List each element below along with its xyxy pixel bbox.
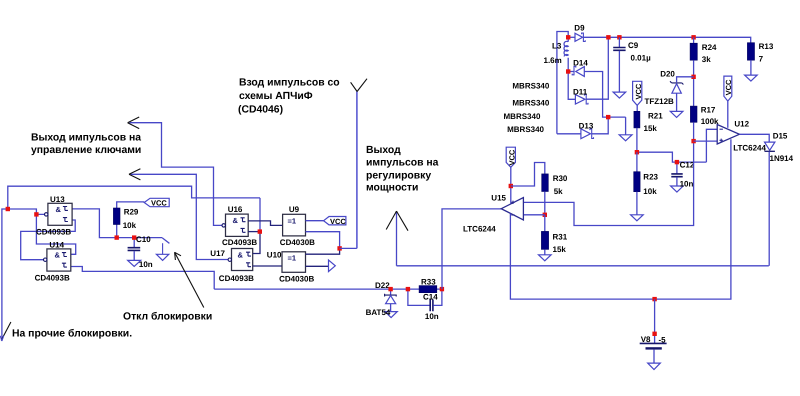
diode D13 (points right) (581, 129, 591, 139)
wire: U15 output column (442, 209, 501, 289)
resistor R30 (542, 174, 549, 192)
wire: R29 bottom stub (116, 225, 118, 238)
capacitor C12 (676, 162, 678, 173)
wire: VCC node to R30 top (511, 163, 545, 187)
XOR gate U10 (282, 252, 306, 272)
ground under C9 (613, 92, 626, 98)
svg-text:L3: L3 (552, 41, 562, 50)
junction C9 rail (617, 35, 621, 39)
svg-text:R31: R31 (553, 233, 568, 242)
junction D11 rail (606, 35, 610, 39)
svg-text:D15: D15 (773, 132, 788, 141)
svg-text:C10: C10 (136, 235, 151, 244)
battery V8 (640, 342, 667, 344)
ground at switch (162, 243, 164, 254)
wire: D14 cathode stub (568, 71, 574, 73)
junction U12 +in (691, 139, 695, 143)
wire: C12 node down to U15 +in route (524, 162, 694, 225)
arrowhead up (386, 211, 408, 231)
svg-text:U12: U12 (734, 119, 749, 128)
wire: U12 V- down to -5 rail (655, 139, 731, 299)
diode D9 (575, 33, 583, 41)
wire: R17 bottom column to C12 node (693, 122, 695, 162)
svg-text:R33: R33 (421, 277, 436, 286)
svg-text:U17: U17 (210, 249, 225, 258)
diode D11 (points right) (575, 95, 585, 104)
svg-text:VCC: VCC (507, 149, 516, 165)
svg-text:1.6m: 1.6m (544, 56, 562, 65)
wire: +in tap (694, 140, 717, 142)
junction antenna node (337, 246, 341, 250)
wire: U15 V- down to -5 rail (510, 214, 654, 300)
resistor R21 (634, 111, 640, 128)
svg-text:10n: 10n (139, 260, 153, 269)
wire: U10 upper out to antenna node (306, 248, 340, 254)
svg-text:мощности: мощности (366, 183, 418, 194)
wire: left output down to other interlocks (2, 209, 8, 341)
wire: rail to battery (654, 299, 656, 343)
wire: L3 node down to D11 anode (568, 72, 575, 100)
diode D14 (points left) (576, 67, 585, 77)
svg-text:V8: V8 (641, 335, 651, 344)
wire: U13 out to U14 input (P2) (36, 214, 75, 254)
svg-text:-5: -5 (659, 335, 667, 344)
svg-text:Выход импульсов на: Выход импульсов на (31, 133, 141, 144)
wire: R30 bottom to -in node (544, 192, 546, 215)
svg-text:VCC: VCC (330, 217, 346, 226)
VCC flag F4 (U12 supply) (724, 76, 732, 101)
wire: U16 row2 to node dot (248, 231, 260, 233)
svg-text:&: & (55, 251, 61, 260)
wire: node A net (U13 output to U16/U17 select) (8, 186, 260, 231)
resistor R13 (747, 43, 754, 61)
svg-text:VCC: VCC (151, 199, 167, 208)
wire: node to C12 node (637, 152, 707, 162)
svg-text:D22: D22 (375, 281, 390, 290)
wire: battery to ground (653, 350, 655, 363)
switch blade (162, 238, 169, 244)
svg-text:R17: R17 (701, 106, 716, 115)
svg-text:R30: R30 (553, 174, 568, 183)
svg-text:VCC: VCC (634, 83, 643, 99)
VCC flag F5 (U15 supply) (506, 147, 515, 167)
svg-text:U15: U15 (491, 193, 506, 202)
wire: dot1 to U13 output bubble (8, 209, 45, 214)
resistor R17 (690, 106, 697, 122)
capacitor C14 branch (408, 289, 430, 305)
wire: arrow1 to U16 bubble (129, 123, 222, 226)
wire: antenna node to antenna mast (340, 247, 357, 249)
ground under R31 (539, 255, 552, 261)
junction R29 bottom (115, 235, 119, 239)
ground under V8 (648, 363, 661, 369)
wire: U13 row2 feedback to U14 bubble (21, 220, 75, 260)
svg-text:D13: D13 (579, 121, 594, 130)
NAND gate U14 (44, 249, 71, 271)
svg-text:&: & (56, 205, 62, 214)
inductor L3 (567, 37, 569, 71)
svg-text:CD4093B: CD4093B (222, 238, 257, 247)
svg-text:U10: U10 (267, 251, 282, 260)
svg-text:MBRS340: MBRS340 (504, 112, 541, 121)
open arrow symbol (329, 260, 336, 272)
wire: VCC to U12 V+ (727, 101, 729, 128)
ground under C12 (671, 186, 684, 192)
svg-text:R23: R23 (643, 172, 658, 181)
svg-text:D11: D11 (573, 88, 588, 97)
antenna Y arms (351, 79, 367, 92)
antenna mast (356, 92, 358, 249)
op-amp U12 (717, 125, 739, 145)
ground under D20 (670, 111, 683, 117)
wire: VCC to R21 (636, 105, 638, 111)
wire: top supply rail (584, 37, 751, 42)
capacitor C10 (133, 238, 135, 247)
svg-text:&: & (233, 216, 239, 225)
VCC flag F3 (above R21) (633, 81, 642, 105)
svg-text:схемы АПЧиФ: схемы АПЧиФ (239, 91, 313, 102)
wire: -in loop (706, 129, 717, 162)
wire: node to R31 (544, 215, 546, 232)
resistor R29 (113, 208, 120, 225)
svg-text:C9: C9 (628, 41, 639, 50)
svg-text:&: & (238, 251, 244, 260)
svg-text:На прочие блокировки.: На прочие блокировки. (12, 329, 132, 340)
slash + arrow on left output (1, 322, 11, 340)
svg-text:Откл блокировки: Откл блокировки (123, 312, 212, 323)
op-amp U15 (mirrored) (501, 198, 523, 220)
junction L3 top (566, 35, 570, 39)
wire: up-arrow stem + long feedback rail (396, 211, 398, 266)
NAND gate U16 (222, 214, 248, 236)
arrowhead 2 (129, 169, 140, 180)
svg-text:15k: 15k (553, 245, 567, 254)
ground under C10 (128, 260, 141, 266)
svg-text:D20: D20 (660, 69, 675, 78)
svg-text:CD4030B: CD4030B (279, 275, 314, 284)
annotation arrow to switch (175, 252, 204, 307)
wire: arrow2 to U17 bubble (131, 174, 229, 259)
ground under R13 (745, 75, 758, 81)
svg-text:U13: U13 (50, 195, 65, 204)
svg-text:Выход: Выход (366, 145, 401, 156)
diode D15 (1N914, points down) (765, 142, 775, 150)
wire: rail y=289 (214, 288, 442, 290)
svg-text:CD4093B: CD4093B (35, 274, 70, 283)
wire: -in to node (524, 214, 545, 216)
svg-text:R21: R21 (648, 112, 663, 121)
junction U15 VCC (509, 184, 513, 188)
svg-text:5k: 5k (554, 187, 563, 196)
svg-text:MBRS340: MBRS340 (512, 82, 549, 91)
wire: node to D20 (677, 77, 694, 83)
junction R21/R23 (635, 150, 639, 154)
svg-text:U16: U16 (228, 205, 243, 214)
wire: R21 bottom to node (636, 128, 638, 152)
svg-text:U9: U9 (289, 205, 300, 214)
wire: D13 anode from return vertical (557, 133, 581, 135)
svg-text:10n: 10n (680, 179, 694, 188)
junction R24 rail (691, 35, 695, 39)
svg-text:D14: D14 (573, 58, 588, 67)
wire: U16 row1 to U9 input (248, 221, 282, 226)
resistor R31 (541, 231, 548, 249)
svg-text:10n: 10n (425, 312, 439, 321)
svg-text:VCC: VCC (724, 79, 733, 95)
svg-text:регулировку: регулировку (366, 170, 431, 181)
wire: D14 anode to node (584, 72, 625, 118)
svg-text:CD4030B: CD4030B (280, 238, 315, 247)
svg-text:LTC6244: LTC6244 (733, 143, 766, 152)
VCC flag F1 (144, 198, 169, 206)
svg-text:MBRS340: MBRS340 (512, 99, 549, 108)
svg-text:15k: 15k (644, 124, 658, 133)
wire: D13 cathode to node dot (592, 117, 609, 134)
resistor R23 (634, 172, 640, 192)
capacitor C9 (618, 37, 620, 47)
wire: D11 cathode up to supply rail (586, 37, 608, 99)
wire: VCC to U15 V+ (510, 167, 512, 203)
svg-text:Взод импульсов со: Взод импульсов со (239, 78, 340, 89)
junction R30/R31 (543, 213, 547, 217)
junction diode node (606, 115, 610, 119)
ground under R23 (631, 215, 644, 221)
svg-text:10k: 10k (123, 221, 137, 230)
resistor R24 (690, 43, 697, 60)
svg-text:D9: D9 (574, 23, 585, 32)
XOR gate U9 (283, 214, 306, 236)
NAND gate U13 (45, 203, 73, 225)
svg-text:=1: =1 (288, 217, 297, 226)
wire: U13 row1 to R29/C10 node (72, 209, 162, 238)
svg-text:0.01µ: 0.01µ (631, 53, 652, 62)
zener D20 (TFZ12B) (670, 81, 683, 84)
svg-text:3k: 3k (702, 55, 711, 64)
wire: R31 to ground (544, 249, 546, 254)
junction dot1 (6, 207, 10, 211)
ground at diode node (625, 117, 627, 135)
svg-text:CD4093B: CD4093B (36, 228, 71, 237)
wire: U9 lower out to antenna node (306, 232, 340, 249)
junction C12 (675, 160, 679, 164)
svg-text:=1: =1 (288, 254, 297, 263)
arrowhead 1 (128, 117, 140, 129)
svg-text:10k: 10k (643, 187, 657, 196)
junction R33 right (440, 287, 444, 291)
wire: D9 anode stub (568, 36, 575, 38)
wire: node dot down to U17 row1 (253, 232, 260, 254)
svg-text:импульсов на: импульсов на (366, 158, 439, 169)
junction V8 top (652, 332, 656, 336)
wire: U10 lower out to open arrow (306, 265, 329, 267)
svg-text:MBRS340: MBRS340 (507, 125, 544, 134)
svg-text:управление ключами: управление ключами (31, 145, 141, 156)
wire: R29 top to VCC flag (117, 202, 145, 208)
wire: D15 cathode down to feedback rail (768, 152, 770, 266)
junction C10 top (132, 235, 136, 239)
junction U16/U17 node (258, 229, 262, 233)
junction V8 rail (652, 297, 656, 301)
svg-text:(CD4046): (CD4046) (238, 104, 283, 115)
wire: R24 to D20 node to R17 (693, 60, 695, 106)
wire: R23 to ground (636, 192, 638, 215)
svg-text:CD4093B: CD4093B (219, 274, 254, 283)
svg-text:U14: U14 (49, 241, 64, 250)
diode D22 (BAT54) to ground (390, 289, 392, 295)
svg-text:R24: R24 (702, 43, 717, 52)
svg-text:BAT54: BAT54 (366, 308, 391, 317)
svg-text:R29: R29 (124, 208, 139, 217)
wire: U9 out to VCC flag (306, 220, 324, 222)
svg-text:C12: C12 (680, 160, 695, 169)
junction dot2 (34, 212, 38, 216)
wire: rail to R24 (693, 37, 695, 43)
wire: R13 to ground (750, 60, 752, 75)
svg-text:TFZ12B: TFZ12B (645, 97, 675, 106)
junction L3 bottom (566, 69, 570, 73)
wire: U14 row2 long wire to D22/R33 rail (71, 267, 214, 290)
svg-text:100k: 100k (701, 117, 719, 126)
wire: left return vertical (557, 32, 568, 134)
junction R33 left (406, 287, 410, 291)
wire: node to R23 (636, 152, 638, 172)
wire: U12 output to D15 (739, 134, 769, 142)
junction D22 (388, 287, 392, 291)
NAND gate U17 (228, 249, 253, 271)
svg-text:LTC6244: LTC6244 (463, 224, 496, 233)
svg-text:7: 7 (759, 54, 764, 63)
wire: U17 row2 to U10 input (253, 265, 282, 267)
svg-text:1N914: 1N914 (770, 154, 794, 163)
svg-text:R13: R13 (759, 42, 774, 51)
resistor R33 (419, 286, 437, 293)
VCC flag F2 (324, 217, 346, 225)
junction D20 (691, 75, 695, 79)
